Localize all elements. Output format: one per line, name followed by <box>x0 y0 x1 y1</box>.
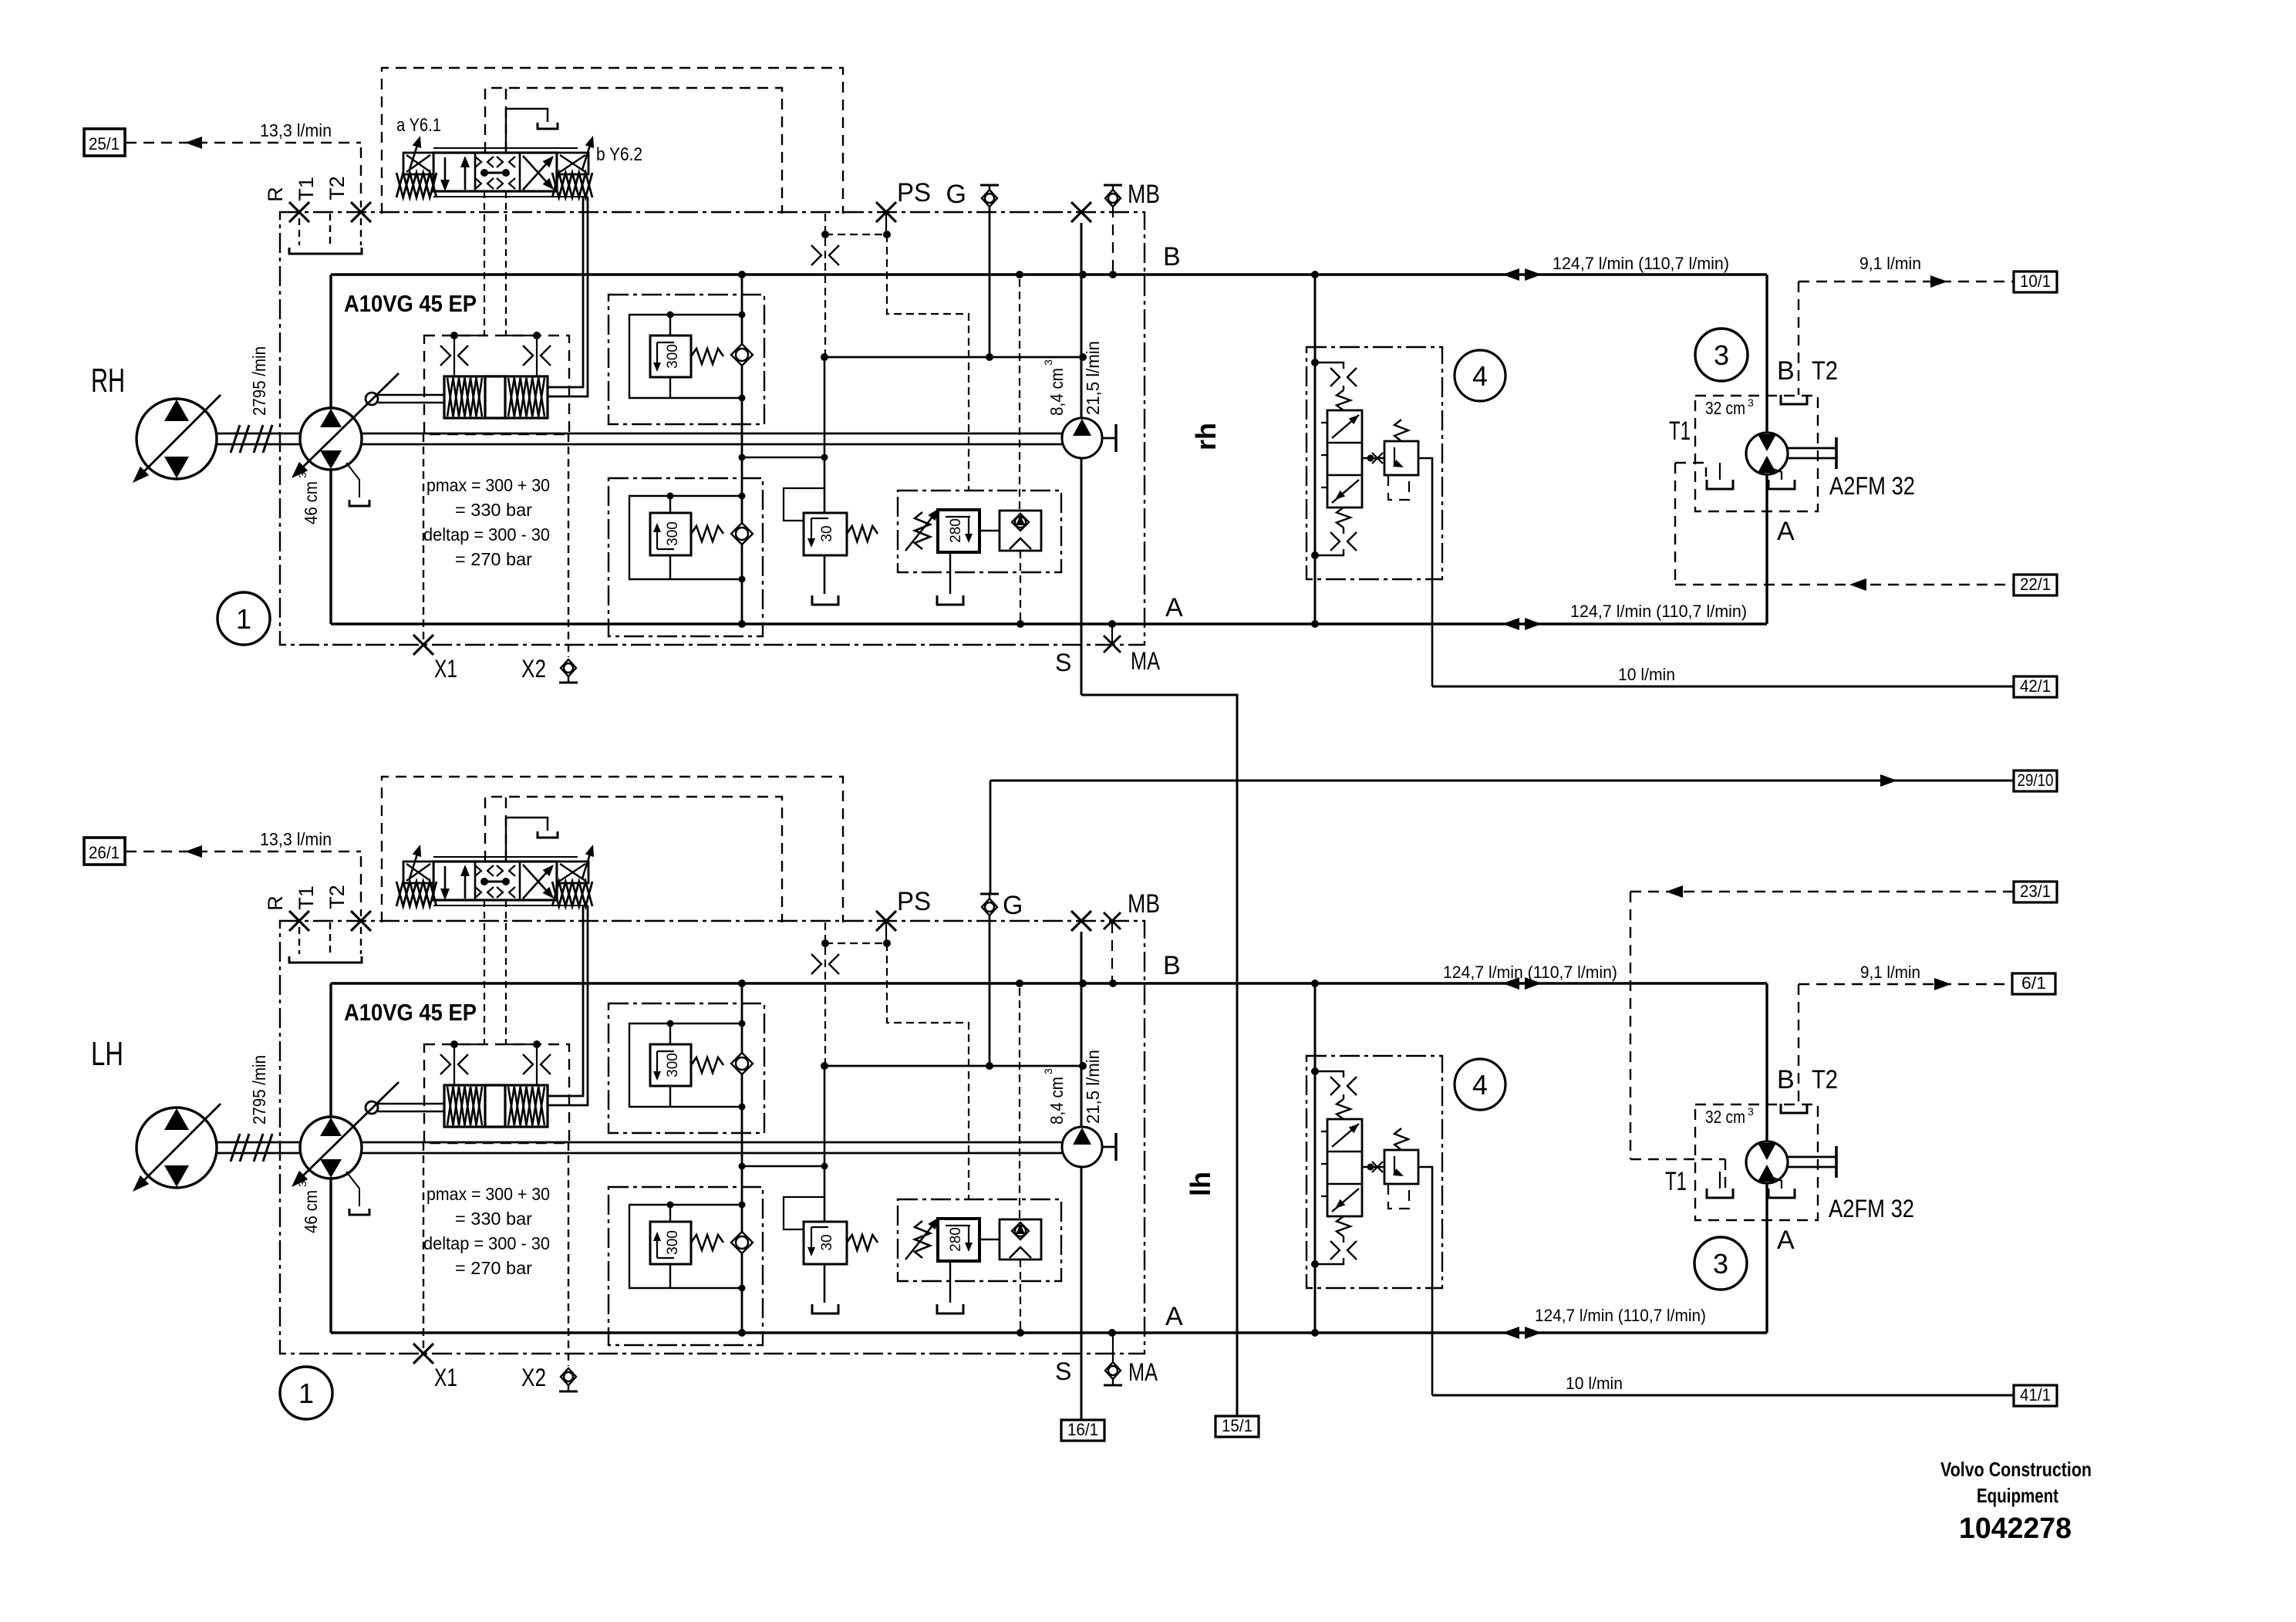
svg-text:b Y6.2: b Y6.2 <box>596 144 642 165</box>
svg-text:T1: T1 <box>1665 1167 1687 1196</box>
svg-text:MA: MA <box>1128 1358 1158 1386</box>
svg-text:23/1: 23/1 <box>2020 882 2051 901</box>
svg-text:1: 1 <box>236 603 251 635</box>
svg-text:G: G <box>946 180 966 209</box>
svg-text:42/1: 42/1 <box>2020 676 2051 696</box>
svg-text:LH: LH <box>91 1035 123 1073</box>
svg-text:Volvo Construction: Volvo Construction <box>1940 1458 2092 1481</box>
svg-text:16/1: 16/1 <box>1067 1420 1098 1439</box>
svg-text:26/1: 26/1 <box>89 843 120 862</box>
svg-text:10 l/min: 10 l/min <box>1618 665 1675 684</box>
svg-text:A2FM 32: A2FM 32 <box>1829 472 1915 500</box>
svg-text:10 l/min: 10 l/min <box>1566 1374 1623 1393</box>
svg-text:1: 1 <box>298 1378 314 1409</box>
svg-text:124,7 l/min (110,7 l/min): 124,7 l/min (110,7 l/min) <box>1443 963 1617 982</box>
svg-text:41/1: 41/1 <box>2020 1385 2051 1404</box>
svg-text:9,1 l/min: 9,1 l/min <box>1860 963 1920 982</box>
svg-text:A2FM 32: A2FM 32 <box>1829 1195 1914 1222</box>
svg-text:G: G <box>1003 891 1023 920</box>
svg-text:25/1: 25/1 <box>89 134 120 153</box>
svg-text:3: 3 <box>1713 1248 1728 1280</box>
svg-text:1042278: 1042278 <box>1959 1512 2072 1545</box>
svg-text:a Y6.1: a Y6.1 <box>396 115 441 136</box>
svg-text:9,1 l/min: 9,1 l/min <box>1859 254 1921 273</box>
svg-text:124,7 l/min (110,7 l/min): 124,7 l/min (110,7 l/min) <box>1553 254 1729 273</box>
svg-text:MB: MB <box>1128 889 1160 919</box>
svg-text:lh: lh <box>1185 1172 1216 1196</box>
svg-text:RH: RH <box>91 362 125 400</box>
svg-text:T1: T1 <box>1669 416 1691 446</box>
svg-text:MB: MB <box>1128 180 1160 209</box>
svg-text:15/1: 15/1 <box>1222 1416 1253 1435</box>
svg-text:29/10: 29/10 <box>2018 771 2054 790</box>
svg-text:124,7 l/min (110,7 l/min): 124,7 l/min (110,7 l/min) <box>1570 602 1747 621</box>
svg-text:10/1: 10/1 <box>2020 271 2051 291</box>
svg-text:MA: MA <box>1131 647 1161 675</box>
svg-text:6/1: 6/1 <box>2021 973 2046 993</box>
svg-text:22/1: 22/1 <box>2020 575 2051 594</box>
svg-text:124,7 l/min (110,7 l/min): 124,7 l/min (110,7 l/min) <box>1535 1306 1706 1325</box>
svg-text:3: 3 <box>1714 339 1729 371</box>
svg-text:Equipment: Equipment <box>1977 1484 2058 1507</box>
svg-text:rh: rh <box>1190 423 1222 450</box>
